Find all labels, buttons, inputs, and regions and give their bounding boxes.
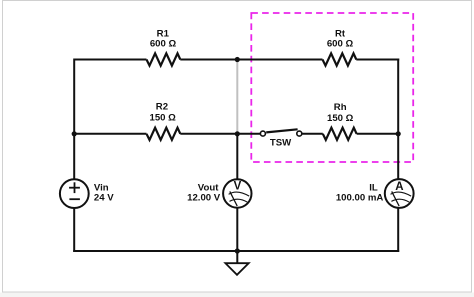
junction node top-center [235,57,240,62]
resistor Rh [323,102,357,140]
svg-text:TSW: TSW [270,137,292,148]
svg-text:R2: R2 [156,101,168,112]
svg-text:100.00 mA: 100.00 mA [336,193,384,204]
wire left rail upper [73,59,75,180]
voltmeter U-Vout [187,179,251,207]
svg-text:12.00 V: 12.00 V [187,193,221,204]
wire bottom row [73,250,399,252]
svg-text:V: V [234,181,242,193]
svg-text:600 Ω: 600 Ω [150,39,177,50]
wire left rail lower [73,208,75,252]
svg-text:600 Ω: 600 Ω [327,39,354,50]
svg-text:Rh: Rh [334,102,347,113]
wire row2 switch-to-Rh [302,133,323,135]
wire top row middle [180,59,322,61]
wire ground stub [236,251,238,263]
wire voltmeter bottom stub [236,208,238,252]
junction node ground [235,248,240,253]
svg-text:24 V: 24 V [94,193,114,204]
svg-text:150 Ω: 150 Ω [150,113,177,124]
junction node R2-left [72,131,77,136]
wire row2 R2-to-switch [180,133,260,135]
svg-text:150 Ω: 150 Ω [327,113,354,124]
wire row2 right [357,133,399,135]
switch TSW [260,129,301,148]
wire voltmeter sense (grey) [236,60,238,134]
wire voltmeter top stub [236,134,238,180]
wire right rail upper [397,59,399,180]
wire top row left [74,59,146,61]
probe box (dashed magenta) [251,13,413,162]
svg-text:A: A [395,181,403,193]
junction node row2-center [235,131,240,136]
source Vin [60,179,114,208]
ammeter U-IL [336,179,414,208]
wire top row right [356,59,399,61]
resistor R2 [147,101,181,140]
wire right rail lower [397,208,399,252]
ground [225,263,248,275]
resistor R1 [147,28,181,65]
resistor Rt [323,28,357,65]
junction node row2-right [396,131,401,136]
wire row2 left [74,133,146,135]
